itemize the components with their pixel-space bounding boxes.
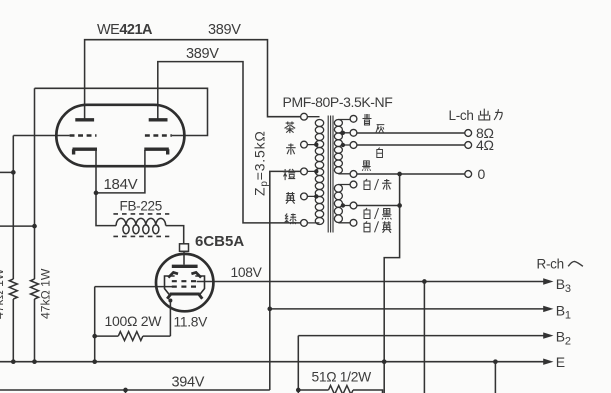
wire B2 column down to 51-ohm node [297, 336, 299, 393]
terminal brown [301, 113, 308, 120]
svg-text:PMF-80P-3.5K-NF: PMF-80P-3.5K-NF [283, 94, 393, 110]
wire plate-right of U1 to transformer green terminal (389V) [158, 62, 300, 223]
label ao (blue) [363, 114, 372, 125]
arrowhead B2 [543, 332, 553, 338]
resistor 100 ohm 2W [118, 332, 143, 341]
svg-text:389V: 389V [208, 22, 241, 38]
terminal black [350, 171, 357, 178]
label ki (yellow) [286, 192, 296, 204]
label kuro (black) [362, 161, 370, 171]
svg-text:Zp=3.5kΩ: Zp=3.5kΩ [252, 130, 271, 196]
terminal white/black [350, 202, 357, 209]
tube U1 WE421A envelope [56, 105, 184, 166]
svg-text:L-ch: L-ch [449, 108, 474, 123]
svg-text:E: E [556, 354, 565, 370]
wire B2 line to arrow [298, 335, 545, 337]
tube U1 left grid (dashed) [70, 134, 97, 136]
tube U2 plate bar [172, 265, 198, 268]
inductor FB-225 loop turns [123, 225, 159, 234]
node 51-ohm left junction [296, 388, 301, 393]
transformer T1 secondary winding upper [334, 120, 342, 174]
wire B3 branch down to canvas bottom [423, 282, 425, 393]
svg-text:11.8V: 11.8V [174, 315, 209, 330]
wire 6CB5A cap lead into plate [183, 251, 185, 264]
wire screen 108V / B3 line to arrow [197, 281, 546, 283]
label daidai (orange) [283, 169, 295, 180]
node R2 bottom on E rail [32, 359, 37, 364]
svg-text:100Ω 2W: 100Ω 2W [105, 313, 163, 329]
label shiro (white) [377, 148, 383, 158]
svg-text:6CB5A: 6CB5A [195, 233, 244, 250]
svg-text:389V: 389V [186, 46, 219, 62]
tube U2 6CB5A top cap [180, 244, 189, 252]
node G1/100-ohm junction [92, 334, 97, 339]
wire orange-tap column (B+ riser) [270, 171, 300, 390]
node B1 take-off on orange riser [267, 307, 272, 312]
arrowhead E [543, 359, 553, 365]
transformer T1 secondary winding lower [334, 185, 342, 223]
wire second bias column lower segment [34, 299, 36, 362]
terminal red [301, 141, 308, 148]
svg-text:4Ω: 4Ω [476, 137, 494, 153]
node input-A junction on left bias column [11, 170, 16, 175]
svg-text:184V: 184V [104, 176, 138, 193]
wire 394V rail [0, 389, 270, 391]
node black-lead junction [397, 172, 402, 177]
tube U1 right plate [149, 118, 168, 121]
wire speaker common column down to E [384, 174, 399, 393]
label cha (brown) [285, 122, 296, 134]
wire E branch down right [494, 362, 496, 393]
tube U2 beam-forming brackets [165, 276, 205, 295]
wire left bias column upper segment [12, 136, 14, 280]
node white/black-lead junction [397, 203, 402, 208]
transformer T1 secondary tap dots [341, 131, 345, 135]
svg-text:47kΩ 1W: 47kΩ 1W [0, 268, 6, 319]
terminal orange [301, 168, 308, 175]
tube U2 cathode cup [167, 294, 202, 299]
wire cathode-left of U1 down to FB-225 (184V node) [96, 150, 116, 226]
node B3 branch junction [422, 279, 427, 284]
label midori (green) [285, 214, 297, 225]
wire 184V link to cathode-right of U1 [96, 150, 145, 193]
wire input stub B to canvas edge [0, 225, 35, 227]
node 184V junction at left cathode [94, 191, 99, 196]
tube U1 left plate [75, 118, 94, 121]
label shutsu-ryoku (output) after L-ch [479, 109, 490, 120]
wire grid-right box from node at x34.5 [35, 88, 208, 135]
terminal green [301, 220, 308, 227]
transformer T1 secondary tap leads [338, 120, 349, 223]
wire white/black terminal to common column [357, 205, 400, 207]
node 394V rail stub junction [123, 388, 128, 393]
terminal white/red [350, 181, 357, 188]
resistor R1 47k 1W [9, 279, 17, 299]
svg-text:47kΩ 1W: 47kΩ 1W [39, 268, 53, 319]
tube U2 control grid G1 (dashed) [172, 286, 197, 288]
svg-text:394V: 394V [172, 375, 205, 391]
svg-text:B1: B1 [556, 303, 571, 322]
svg-text:B3: B3 [556, 276, 571, 295]
output terminal 8 ohm [465, 130, 472, 137]
svg-text:WE421A: WE421A [97, 22, 153, 38]
output terminal 4 ohm [465, 142, 472, 149]
node 100-ohm column on E rail [92, 359, 97, 364]
tube U1 left cathode [73, 149, 98, 154]
node speaker-common on E rail [382, 359, 387, 364]
wire input stub A to canvas edge [0, 171, 13, 173]
wire 6CB5A cathode lead down to 100-ohm resistor [169, 301, 171, 337]
tube U1 right grid (dashed) [145, 134, 172, 136]
wire 394V stub down [125, 390, 127, 393]
terminal blue [350, 115, 357, 122]
terminal white/yellow [350, 219, 357, 226]
tube U1 right cathode [144, 149, 169, 154]
wire speaker 0 line from black terminal [357, 173, 465, 175]
wire FB-225 to 6CB5A top cap [166, 226, 184, 244]
node input-B junction on second bias column [32, 224, 37, 229]
label shiro/aka (white/red) [364, 179, 370, 190]
output terminal 0 [465, 171, 472, 178]
arrowhead B1 [543, 306, 553, 312]
tube U2 cathode junction dot [168, 299, 172, 303]
label shiro/ki (white/yellow) [364, 221, 370, 232]
tube U2 6CB5A envelope [156, 254, 213, 311]
label he (to) after R-ch [568, 261, 583, 266]
svg-text:108V: 108V [231, 265, 263, 280]
wire speaker 8-ohm line [357, 132, 465, 134]
transformer T1 primary winding [315, 120, 323, 225]
resistor R2 47k 1W [31, 279, 39, 299]
label shiro/kuro (white/black) [364, 208, 370, 219]
inductor FB-225 core dashed lines [113, 214, 169, 237]
resistor 51 ohm 1/2W [329, 386, 354, 393]
arrowhead B3 [543, 278, 553, 284]
tube U2 screen grid G2 (dashed) [172, 280, 197, 282]
label aka (red) [286, 144, 296, 155]
wire left bias column lower segment [12, 299, 14, 362]
wire plate-left of U1 to transformer brown terminal (389V) [85, 40, 301, 119]
transformer T1 core [328, 116, 333, 233]
svg-text:FB-225: FB-225 [120, 199, 162, 214]
label hai (gray) [376, 125, 385, 134]
svg-text:51Ω 1/2W: 51Ω 1/2W [312, 370, 372, 385]
wire 6CB5A grid G1 to cathode-resistor column [95, 286, 172, 288]
svg-text:0: 0 [478, 166, 486, 182]
node R1 bottom on E rail [11, 359, 16, 364]
transformer T1 primary tap dots [314, 142, 318, 146]
terminal white [350, 142, 357, 149]
wire cathode-resistor column down to E rail [94, 287, 96, 362]
transformer T1 primary tap leads [308, 117, 320, 223]
wire 100-ohm resistor leads [95, 335, 171, 337]
svg-text:R-ch: R-ch [537, 256, 564, 271]
wire grid-left of U1 to left bias column [13, 135, 69, 137]
terminal gray [350, 129, 357, 136]
tube U2 beam plates [168, 272, 201, 277]
wire 51-ohm resistor leads [298, 390, 382, 393]
svg-text:B2: B2 [556, 329, 571, 348]
wire speaker 4-ohm line [357, 144, 465, 146]
node E branch junction [493, 359, 498, 364]
wire E rail to arrow [0, 361, 546, 363]
inductor FB-225 coil [116, 218, 166, 225]
terminal yellow [301, 193, 308, 200]
wire B1 line to arrow [270, 308, 546, 310]
wire second bias column upper segment [34, 88, 36, 279]
